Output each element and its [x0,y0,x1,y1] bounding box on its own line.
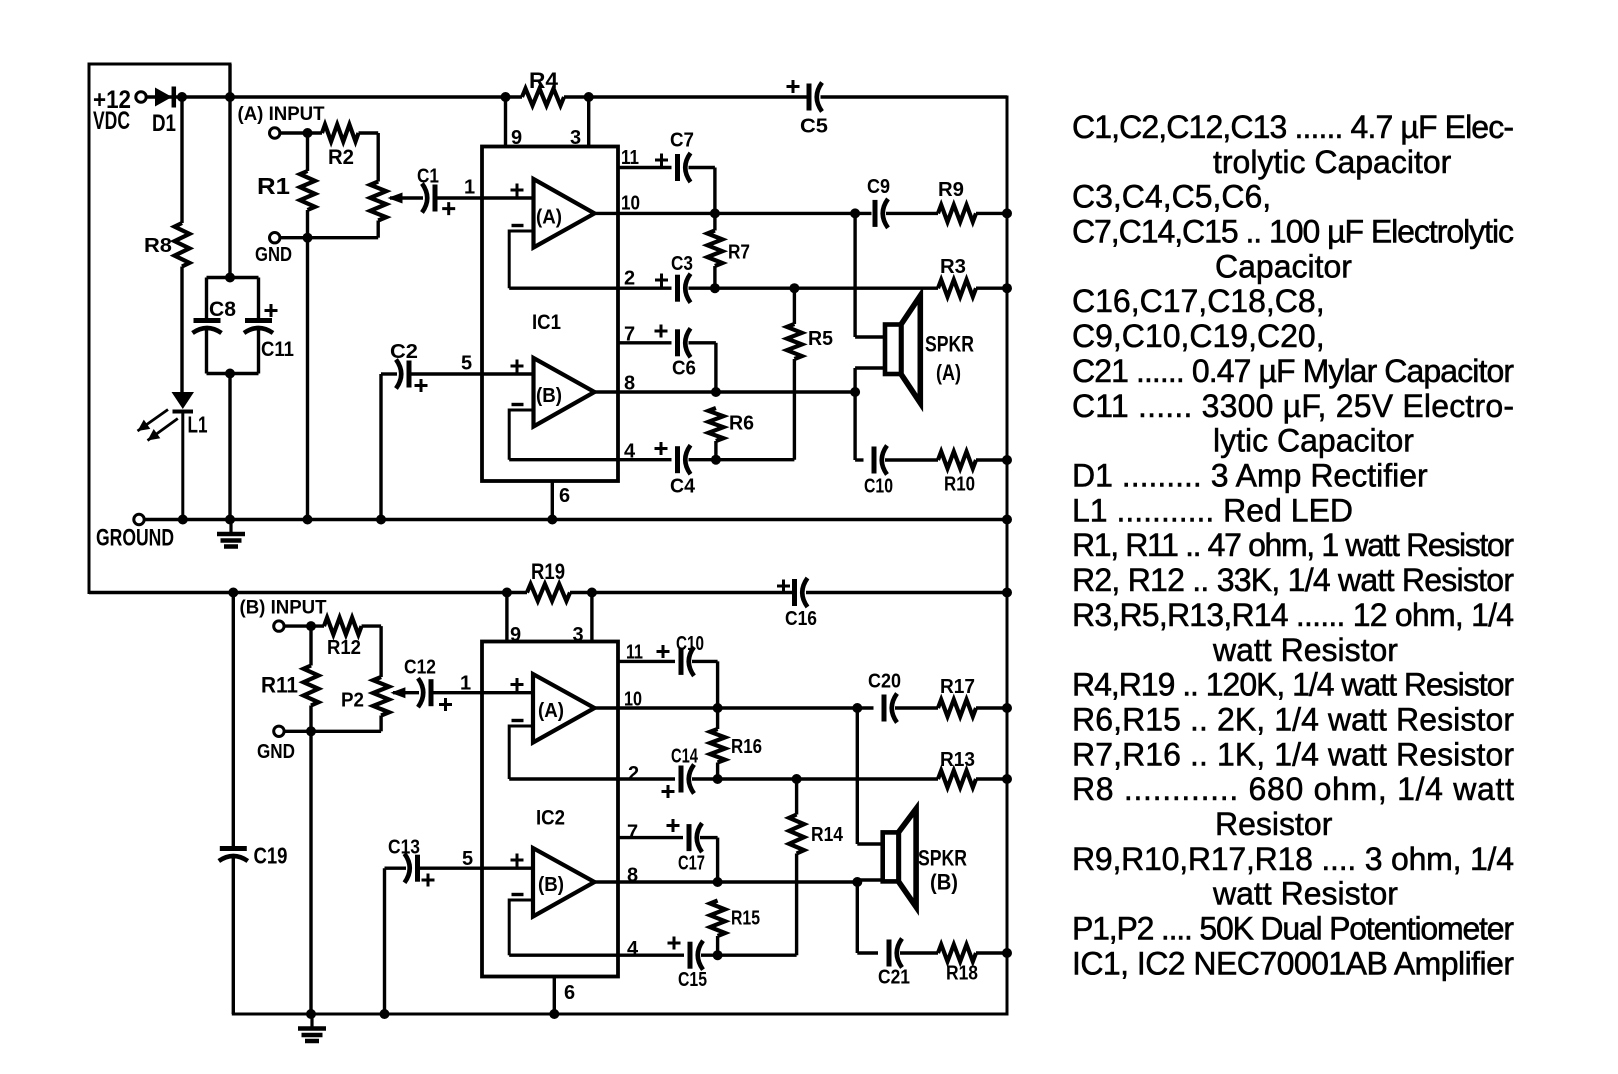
svg-text:GROUND: GROUND [96,525,174,552]
svg-text:R7: R7 [728,242,750,264]
wire +12 V rail [146,95,522,98]
op-amp IC1 package box [482,147,618,482]
node (B) INPUT terminal [274,621,284,631]
wire outer top-left box edge [89,63,230,66]
wire C12 to IC2 pin 1 [433,691,533,694]
svg-text:R17: R17 [940,676,975,698]
resistor R19 [527,584,570,601]
node junction speaker A top branch [850,208,860,218]
svg-text:4: 4 [624,441,636,463]
wire channel B +12 rail [89,591,527,594]
wire to speaker A top [853,213,856,337]
svg-text:C8: C8 [209,298,236,321]
svg-text:C11 ...... 3300 µF, 25V Elect: C11 ...... 3300 µF, 25V Electro- [1072,388,1514,424]
wire channel B bottom rail [233,1013,1007,1016]
svg-text:C3: C3 [671,253,693,275]
op-amp IC1-A [534,179,595,248]
node junction R5 top [789,283,799,293]
svg-text:11: 11 [621,147,639,169]
svg-text:IC1, IC2 NEC70001AB Amplifie: IC1, IC2 NEC70001AB Amplifier [1072,945,1514,981]
capacitor C4 [675,446,680,473]
svg-text:C16,C17,C18,C8,: C16,C17,C18,C8, [1072,283,1325,319]
potentiometer P1 [370,182,386,221]
svg-text:C21 ...... 0.47 µF Mylar Capa: C21 ...... 0.47 µF Mylar Capacitor [1072,353,1514,389]
svg-text:IC2: IC2 [536,807,565,830]
svg-text:2: 2 [628,763,639,785]
node junction R16 on pin 2 line [713,774,723,784]
capacitor C8 [205,278,208,319]
node junction speaker B bottom on pin 8 line [852,877,862,887]
svg-text:8: 8 [627,865,638,887]
capacitor C3 [675,275,680,302]
node junction B rail right [1002,588,1012,598]
wire IC2 pin 9 stub [502,588,512,598]
node junction L1 at ground rail [178,515,188,525]
node +12 VDC terminal [136,92,146,102]
svg-text:7: 7 [627,822,638,844]
wire IC1 pin 7 line [618,341,672,344]
svg-text:VDC: VDC [93,107,130,135]
svg-text:Capacitor: Capacitor [1215,248,1352,284]
svg-text:C2: C2 [390,341,418,363]
node junction +12 rail to C8/C11 [225,92,235,102]
capacitor C2 [379,374,382,520]
svg-text:R1: R1 [257,173,290,199]
svg-text:1: 1 [464,177,475,199]
capacitor C10 [855,458,863,461]
resistor R17 [895,706,938,709]
op-amp IC2-B [533,848,595,917]
wire R12 to potentiometer P2 [362,624,382,627]
diode D1 [155,88,172,107]
svg-text:R9,R10,R17,R18 .... 3 ohm, 1/4: R9,R10,R17,R18 .... 3 ohm, 1/4 [1072,841,1514,877]
wire to speaker B top [856,708,859,844]
resistor R6 [708,408,723,441]
svg-text:SPKR: SPKR [918,846,967,871]
capacitor C11 [257,278,260,319]
svg-text:R13: R13 [940,749,975,771]
wire IC2 pin 7 line [618,836,683,839]
svg-text:(B) INPUT: (B) INPUT [240,598,327,619]
svg-text:R19: R19 [531,559,565,584]
wire IC1-B feedback (pin 4) [509,410,533,460]
svg-text:IC1: IC1 [532,311,561,334]
svg-text:P2: P2 [341,690,364,712]
wire IC1 pin 8 output line [595,390,856,393]
wire pin 4 line to R14 bottom [701,954,797,957]
svg-text:R8 ............ 680 ohm, 1/4 w: R8 ............ 680 ohm, 1/4 watt [1072,771,1514,807]
LED L1 [172,392,195,409]
ground symbol channel A [229,520,232,533]
speaker SPKR (B) [898,809,916,907]
wire IC1 pin 10 output line [595,212,872,215]
svg-text:R9: R9 [938,179,964,201]
wire C7 to pin 10 node [689,166,715,169]
capacitor C13 [383,868,386,1014]
wire IC2 pin 11 line [618,660,675,663]
wire IC2 pin 6 stub [553,977,556,1015]
resistor R7 [707,231,722,267]
potentiometer P2 [373,677,389,716]
capacitor C17 [687,824,692,851]
wire IC2 pin 4 line [509,954,684,957]
svg-text:R4: R4 [529,68,559,93]
svg-text:C7: C7 [670,130,694,152]
svg-text:R15: R15 [731,908,760,930]
svg-text:10: 10 [621,193,640,215]
wire IC1 pin 2 line [509,287,671,290]
node junction D1 cathode [177,92,187,102]
wire C1 to IC1 pin 1 [437,196,534,199]
svg-text:C14: C14 [671,746,699,768]
svg-text:D1 ......... 3 Amp Rectifier: D1 ......... 3 Amp Rectifier [1072,458,1428,494]
node junction R15 on pin 4 line [713,950,723,960]
svg-text:C4: C4 [670,476,696,498]
svg-text:R6,R15 .. 2K, 1/4 watt Resisto: R6,R15 .. 2K, 1/4 watt Resistor [1072,702,1514,738]
wire speaker B branch down to C21 [856,882,859,953]
svg-text:(A): (A) [536,207,562,229]
svg-text:lytic Capacitor: lytic Capacitor [1213,423,1414,459]
node GROUND terminal [134,514,144,524]
svg-text:GND: GND [257,741,295,763]
resistor R16 [710,729,725,763]
resistor R14 [795,779,798,815]
node junction speaker B top branch [852,703,862,713]
svg-text:R18: R18 [946,963,978,985]
svg-text:2: 2 [624,268,635,290]
wire R8 to LED L1 [180,267,183,393]
node junction input/R11 [306,621,316,631]
svg-text:9: 9 [510,624,521,646]
resistor R8 [175,223,190,267]
svg-text:1: 1 [460,673,471,695]
svg-text:C13: C13 [388,837,420,859]
svg-text:L1: L1 [188,412,208,438]
node junction C8/C11 bottom [225,369,235,379]
resistor R2 [322,125,359,142]
wire IC2 pin 3 stub [587,588,597,598]
svg-text:10: 10 [624,689,642,711]
node junction R14 top [792,774,802,784]
svg-text:R3,R5,R13,R14 ...... 12 ohm, 1: R3,R5,R13,R14 ...... 12 ohm, 1/4 [1072,597,1514,633]
svg-text:(B): (B) [538,874,564,896]
svg-text:GND: GND [255,244,292,266]
svg-text:R1, R11 .. 47 ohm, 1 watt Resi: R1, R11 .. 47 ohm, 1 watt Resistor [1072,527,1514,563]
svg-text:R8: R8 [144,235,172,257]
svg-text:R10: R10 [944,474,975,496]
wire IC2 pin 2 line [509,777,675,780]
node GND terminal channel A [270,233,280,243]
wire speaker B bottom [857,878,883,881]
svg-text:R2: R2 [328,146,354,169]
svg-text:6: 6 [559,485,570,507]
svg-text:C16: C16 [785,608,817,630]
potentiometer P2 wiper arrow [390,687,405,698]
node junction ground rail right [1002,515,1012,525]
wire R1 branch to ground rail [306,238,309,520]
wire speaker A bottom [855,366,886,369]
node junction C10/R16 on pin 10 line [713,703,723,713]
svg-text:C9,C10,C19,C20,: C9,C10,C19,C20, [1072,318,1325,354]
wire IC1 pin 9 stub [501,92,511,102]
svg-text:C3,C4,C5,C6,: C3,C4,C5,C6, [1072,179,1271,215]
node junction R7 on pin 2 line [710,283,720,293]
svg-text:R6: R6 [729,413,754,435]
wire C6 to pin 8 node [689,341,716,344]
svg-text:C15: C15 [678,969,707,991]
svg-text:trolytic Capacitor: trolytic Capacitor [1213,144,1452,180]
wire input to R12 [284,624,324,627]
svg-text:C10: C10 [864,476,893,498]
svg-text:R3: R3 [940,256,966,278]
svg-text:3: 3 [573,624,584,646]
capacitor C6 [675,329,680,356]
wire C8/C11 block bottom [207,372,259,375]
node junction R1 bottom [303,233,313,243]
resistor R13 [938,771,976,788]
resistor R10 [885,458,938,461]
node junction R11 bottom [306,726,316,736]
wire D1 to R8 [180,97,183,223]
node junction C8/C11 at ground rail [225,515,235,525]
potentiometer P1 wiper arrow [388,193,403,204]
wire pin 2 line to R13 [692,777,938,780]
svg-text:P1,P2 .... 50K Dual Potentiome: P1,P2 .... 50K Dual Potentiometer [1072,911,1514,947]
svg-text:R5: R5 [808,328,833,350]
ground symbol channel B [310,1014,313,1027]
wire IC2-A feedback (pin 2) [509,726,533,779]
wire input to R2 [280,131,322,134]
svg-text:(A): (A) [936,360,961,385]
svg-text:(B): (B) [930,870,958,895]
node junction C19 top [228,588,238,598]
capacitor C1 [422,184,427,213]
svg-text:C1,C2,C12,C13 ...... 4.7 µF El: C1,C2,C12,C13 ...... 4.7 µF Elec- [1072,109,1514,145]
svg-text:watt Resistor: watt Resistor [1212,632,1398,668]
node junction C8/C11 top [225,273,235,283]
wire C13 to IC2 pin 5 [420,867,534,870]
wire speaker A branch down to C10 [853,392,856,460]
op-amp IC1-B [534,358,595,427]
resistor R18 [900,951,938,954]
wire pin 2 line to R3 [689,287,939,290]
svg-text:watt Resistor: watt Resistor [1212,876,1398,912]
svg-text:6: 6 [564,982,575,1004]
capacitor C10 (channel B) [679,648,684,675]
wire down to C8/C11 block [228,97,231,278]
svg-text:L1 ........... Red LED: L1 ........... Red LED [1072,492,1353,528]
svg-text:R12: R12 [327,637,361,659]
svg-text:C9: C9 [867,176,890,198]
svg-text:C10: C10 [676,633,704,655]
svg-text:C19: C19 [254,843,288,869]
svg-text:R4,R19 .. 120K, 1/4 watt Resis: R4,R19 .. 120K, 1/4 watt Resistor [1072,667,1514,703]
wire GND row channel A [280,236,378,239]
capacitor C15 [688,942,693,969]
svg-text:C11: C11 [261,338,294,361]
capacitor C12 [418,678,423,707]
svg-text:4: 4 [627,938,639,960]
node junction R6 on pin 4 line [711,455,721,465]
svg-text:C20: C20 [868,671,901,693]
svg-text:C21: C21 [878,967,910,989]
svg-text:5: 5 [461,353,472,375]
wire C17 to pin 8 node [700,836,718,839]
capacitor C20 [882,695,887,722]
op-amp IC2-A [533,674,595,743]
speaker SPKR (A) [901,296,920,403]
svg-text:(A): (A) [538,700,564,722]
resistor R3 [938,280,976,297]
op-amp IC2 package box [482,642,618,977]
svg-text:R16: R16 [731,736,762,758]
node junction input/R1 [303,128,313,138]
svg-text:9: 9 [511,127,522,149]
resistor R5 [793,288,796,324]
svg-text:R2, R12 .. 33K, 1/4 watt Resis: R2, R12 .. 33K, 1/4 watt Resistor [1072,562,1514,598]
wire C8/C11 to ground rail [228,374,231,520]
resistor R1 [306,133,309,171]
capacitor C19 [232,593,235,847]
svg-text:(B): (B) [536,385,562,407]
node GND terminal channel B [274,726,284,736]
capacitor C9 [873,200,878,227]
wire C10 to pin 10 node [692,660,718,663]
svg-text:11: 11 [626,642,643,664]
svg-text:3: 3 [570,127,581,149]
svg-text:C17: C17 [678,853,705,875]
wire right rail [1006,97,1009,1014]
wire IC2 pin 10 output line [595,706,874,709]
wire C8/C11 parallel block top [207,276,259,279]
resistor R15 [710,901,725,937]
svg-text:Resistor: Resistor [1215,806,1333,842]
capacitor C21 [857,951,878,954]
wire IC2-B feedback (pin 4) [509,900,533,955]
resistor R9 [886,212,938,215]
resistor R11 [309,626,312,665]
svg-text:C1: C1 [417,166,439,188]
node (A) INPUT terminal [270,128,280,138]
svg-text:C7,C14,C15 .. 100 µF Electrol: C7,C14,C15 .. 100 µF Electrolytic [1072,214,1514,250]
wire IC1 pin 11 line [618,166,672,169]
wire channel A ground rail [144,518,1007,521]
wire IC1-A feedback (pin 2) [509,231,533,288]
svg-text:D1: D1 [152,110,176,137]
capacitor C5 [807,84,812,111]
node junction speaker A bottom on pin 8 line [850,387,860,397]
svg-text:C12: C12 [404,657,436,679]
svg-text:R7,R16 .. 1K, 1/4 watt Resisto: R7,R16 .. 1K, 1/4 watt Resistor [1072,736,1514,772]
svg-text:SPKR: SPKR [925,332,974,357]
wire R11 branch to bottom rail [309,731,312,1014]
svg-text:C6: C6 [672,358,696,380]
svg-text:5: 5 [462,848,473,870]
wire IC2 pin 8 output line [595,880,858,883]
capacitor C7 [675,154,680,181]
capacitor C16 [792,579,797,606]
LED L1 emission arrows [138,410,169,432]
wire pin 4 line to R5 bottom [689,458,795,461]
wire IC1 pin 3 stub [584,92,594,102]
capacitor C14 [679,766,684,793]
svg-text:8: 8 [624,373,635,395]
resistor R4 [522,89,564,106]
wire IC1 pin 6 stub [551,481,554,520]
svg-text:C5: C5 [800,116,828,138]
wire IC1 pin 4 line [509,458,671,461]
svg-text:R11: R11 [261,673,298,698]
svg-text:R14: R14 [811,824,844,846]
svg-text:(A) INPUT: (A) INPUT [238,104,325,125]
node junction C6/R6 on pin 8 line [711,387,721,397]
wire R2 to potentiometer P1 [359,131,379,134]
wire C2 to IC1 pin 5 [411,372,534,375]
node junction C17/R15 on pin 8 line [713,877,723,887]
node junction C7/R7 on pin 10 line [710,208,720,218]
svg-text:7: 7 [624,324,635,346]
resistor R12 [324,618,362,635]
wire GND row channel B [284,730,381,733]
